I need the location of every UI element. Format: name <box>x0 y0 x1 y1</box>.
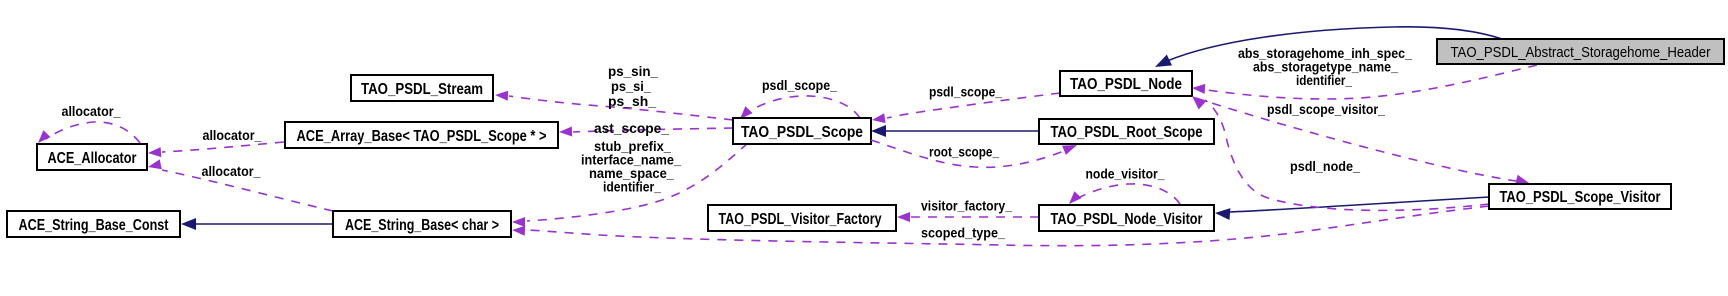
svg-text:TAO_PSDL_Visitor_Factory: TAO_PSDL_Visitor_Factory <box>719 211 882 228</box>
svg-text:psdl_scope_visitor_: psdl_scope_visitor_ <box>1267 101 1385 117</box>
node ACE_String_Base_Const <box>7 211 180 237</box>
wire: psdl_node_ from TAO_PSDL_Scope_Visitor to TAO_PSDL_Node <box>1192 96 1489 210</box>
wire: psdl_scope_visitor_ from TAO_PSDL_Node to TAO_PSDL_Scope_Visitor <box>1196 98 1529 185</box>
svg-text:ACE_String_Base< char >: ACE_String_Base< char > <box>345 217 499 234</box>
node ACE_Allocator <box>37 144 147 170</box>
wire: scoped_type_ from TAO_PSDL_Scope_Visitor to ACE_String_Base <box>512 206 1489 246</box>
svg-text:allocator_: allocator_ <box>203 127 262 143</box>
wire: allocator_ from ACE_String_Base to ACE_Allocator <box>148 159 333 211</box>
wire: ps_sin_ ps_si_ ps_sh_ from TAO_PSDL_Scope to TAO_PSDL_Stream <box>495 63 733 120</box>
wire: allocator_ from ACE_Array_Base to ACE_Allocator <box>148 127 284 157</box>
wire: psdl_scope_ self-loop on TAO_PSDL_Scope <box>740 77 860 119</box>
svg-text:identifier_: identifier_ <box>1296 72 1352 88</box>
svg-text:TAO_PSDL_Stream: TAO_PSDL_Stream <box>361 81 483 98</box>
node TAO_PSDL_Scope_Visitor <box>1489 184 1671 209</box>
node TAO_PSDL_Abstract_Storagehome_Header <box>1437 39 1724 64</box>
wire: ast_scope_ from TAO_PSDL_Scope to ACE_Array_Base <box>559 120 733 137</box>
svg-text:visitor_factory_: visitor_factory_ <box>921 198 1012 214</box>
svg-text:TAO_PSDL_Scope: TAO_PSDL_Scope <box>741 124 863 141</box>
wire: abs_storagehome_inh_spec_ abs_storagetype_name_ identifier_ from Header to TAO_PSDL_Node <box>1192 45 1537 99</box>
svg-text:ps_sh_: ps_sh_ <box>608 93 656 109</box>
wire: allocator_ self-loop on ACE_Allocator <box>38 103 140 143</box>
node TAO_PSDL_Stream <box>351 75 493 101</box>
wire: inheritance ACE_String_Base&lt;char&gt; to ACE_String_Base_Const <box>181 218 333 230</box>
svg-text:TAO_PSDL_Abstract_Storagehome_: TAO_PSDL_Abstract_Storagehome_Header <box>1451 44 1711 61</box>
node TAO_PSDL_Scope <box>733 118 871 144</box>
node TAO_PSDL_Node <box>1060 71 1192 96</box>
node TAO_PSDL_Visitor_Factory <box>708 205 896 231</box>
wire: psdl_scope_ from TAO_PSDL_Node to TAO_PSDL_Scope <box>872 84 1060 124</box>
wire: visitor_factory_ from TAO_PSDL_Node_Visitor to TAO_PSDL_Visitor_Factory <box>897 198 1039 223</box>
svg-text:allocator_: allocator_ <box>62 103 121 119</box>
svg-text:ACE_Array_Base< TAO_PSDL_Scope: ACE_Array_Base< TAO_PSDL_Scope * > <box>297 128 547 145</box>
svg-text:psdl_scope_: psdl_scope_ <box>762 77 837 93</box>
wire: inheritance TAO_PSDL_Root_Scope to TAO_PSDL_Scope <box>871 125 1039 137</box>
svg-text:ACE_String_Base_Const: ACE_String_Base_Const <box>19 217 170 234</box>
svg-text:psdl_node_: psdl_node_ <box>1290 158 1360 174</box>
wire: stub_prefix_ interface_name_ name_space_ identifier_ from TAO_PSDL_Scope to ACE_String_Base <box>512 138 748 227</box>
svg-text:psdl_scope_: psdl_scope_ <box>929 84 1002 100</box>
svg-text:TAO_PSDL_Root_Scope: TAO_PSDL_Root_Scope <box>1051 124 1203 141</box>
svg-text:ps_si_: ps_si_ <box>611 78 651 94</box>
node TAO_PSDL_Node_Visitor <box>1039 205 1214 231</box>
wire: node_visitor_ self-loop on TAO_PSDL_Node_Visitor <box>1069 166 1180 205</box>
svg-text:ps_sin_: ps_sin_ <box>608 63 658 79</box>
svg-text:allocator_: allocator_ <box>202 163 261 179</box>
node ACE_Array_Base< TAO_PSDL_Scope * > <box>285 122 558 148</box>
node TAO_PSDL_Root_Scope <box>1039 119 1214 144</box>
svg-text:scoped_type_: scoped_type_ <box>921 225 1005 241</box>
svg-text:TAO_PSDL_Scope_Visitor: TAO_PSDL_Scope_Visitor <box>1500 189 1661 206</box>
svg-text:ACE_Allocator: ACE_Allocator <box>48 150 137 167</box>
svg-text:TAO_PSDL_Node_Visitor: TAO_PSDL_Node_Visitor <box>1051 211 1203 228</box>
svg-text:node_visitor_: node_visitor_ <box>1086 166 1165 182</box>
wire: inheritance Header to TAO_PSDL_Node <box>1155 27 1502 67</box>
svg-text:identifier_: identifier_ <box>603 179 661 195</box>
wire: root_scope_ from TAO_PSDL_Scope to TAO_PSDL_Root_Scope <box>871 140 1077 167</box>
node ACE_String_Base< char > <box>333 211 511 237</box>
svg-text:TAO_PSDL_Node: TAO_PSDL_Node <box>1070 76 1182 93</box>
svg-text:root_scope_: root_scope_ <box>929 144 999 160</box>
svg-text:ast_scope_: ast_scope_ <box>594 120 669 136</box>
wire: inheritance TAO_PSDL_Scope_Visitor to TAO_PSDL_Node_Visitor <box>1215 197 1489 220</box>
